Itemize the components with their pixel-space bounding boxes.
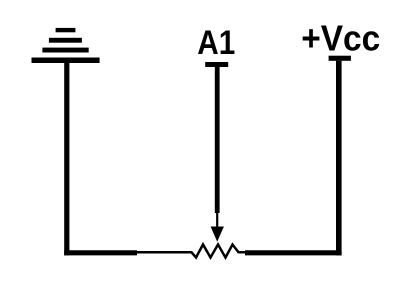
- +Vcc terminal bar: [329, 56, 351, 61]
- node A1 terminal bar: [205, 62, 228, 67]
- resistor R1: [137, 245, 247, 258]
- wire ground vertical: [64, 63, 69, 255]
- wire bottom right: [245, 250, 342, 255]
- svg-text:+Vcc: +Vcc: [301, 18, 380, 59]
- wire bottom left: [64, 250, 137, 255]
- wire A1 vertical: [215, 67, 220, 214]
- svg-text:A1: A1: [197, 24, 235, 62]
- wiper arrow: [216, 212, 218, 229]
- ground: [32, 28, 100, 63]
- wire +Vcc vertical: [336, 61, 342, 256]
